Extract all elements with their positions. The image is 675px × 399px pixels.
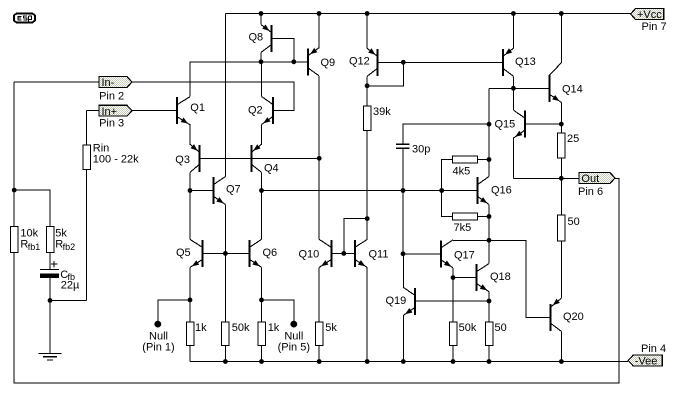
- resistor 1k x190: [186, 322, 194, 345]
- node Q19 base dot: [487, 299, 492, 304]
- wire In- line to Q2 base: [14, 82, 294, 111]
- wire Q5 Q6 base link: [204, 252, 249, 254]
- label Q1: [190, 102, 205, 114]
- esp logo: [14, 14, 35, 23]
- wire 4k5 right lead: [478, 159, 489, 161]
- node Q10 Q11 base dot: [341, 251, 346, 256]
- wire Q12 collector drop: [366, 76, 368, 86]
- wire Q14 emitter to 25R: [560, 102, 562, 133]
- wire 50 right top lead: [488, 301, 490, 322]
- wire 50 bottom to Q20 emitter: [560, 241, 562, 298]
- label 50 x489: [495, 322, 507, 334]
- wire Q11 diode tie: [344, 219, 367, 254]
- svg-text:7k5: 7k5: [454, 222, 472, 234]
- wire 30p bottom lead: [402, 148, 404, 190]
- svg-text:Q6: Q6: [263, 247, 278, 259]
- node Q5 emitter dot: [188, 298, 193, 303]
- wire null pin1 lead: [158, 300, 190, 322]
- label 50k x225.4: [232, 322, 250, 334]
- label Null (Pin 1): [142, 331, 174, 354]
- label Pin 4: [641, 343, 666, 355]
- svg-text:Q11: Q11: [369, 248, 389, 260]
- node Cfb ground junction: [48, 298, 53, 303]
- resistor 25: [558, 133, 566, 158]
- node 30p bottom dot: [401, 188, 406, 193]
- wire Q3 Q4 base line: [200, 157, 320, 159]
- wire 4k5 left to 7k5 left: [442, 160, 453, 217]
- wire Q12 emitter riser: [366, 14, 368, 49]
- wire Q1 collector riser: [190, 62, 308, 97]
- svg-text:Q7: Q7: [226, 183, 241, 195]
- label Q2: [248, 104, 263, 116]
- node y62 Q8 collector dot: [259, 59, 264, 64]
- capacitor Cfb 22u: [40, 261, 59, 278]
- label Q13: [515, 56, 536, 68]
- wire Q18 collector riser: [488, 240, 490, 263]
- label Q10: [299, 248, 320, 260]
- wire x489 to Q17 collector node: [488, 217, 490, 241]
- svg-text:Q5: Q5: [176, 247, 191, 259]
- transistor Q16: [477, 177, 489, 205]
- node rail Q12 dot: [365, 11, 370, 16]
- node 4k5 right dot: [487, 157, 492, 162]
- wire x489 riser: [488, 88, 490, 159]
- wire +Vcc top rail: [225, 13, 630, 15]
- resistor 7k5: [453, 213, 478, 220]
- label 100 - 22k: [93, 154, 139, 166]
- wire Q17 base line: [403, 253, 440, 255]
- svg-text:4k5: 4k5: [453, 166, 471, 178]
- svg-text:+Vcc: +Vcc: [637, 9, 662, 21]
- wire 1k bottom lead x190: [189, 346, 191, 362]
- wire 30p top line: [403, 124, 489, 143]
- wire output line: [513, 177, 579, 179]
- transistor Q15: [513, 110, 526, 138]
- wire 50 top lead: [560, 178, 562, 215]
- wire Q7 collector riser: [224, 14, 226, 177]
- label Q18: [490, 271, 511, 283]
- wire Q20 collector drop: [560, 331, 562, 361]
- label Pin 3: [99, 118, 124, 130]
- wire Q8 collector drop: [260, 53, 262, 62]
- svg-text:fb1: fb1: [28, 242, 41, 252]
- svg-text:10k: 10k: [20, 227, 38, 239]
- transistor Q20: [550, 298, 562, 331]
- wire null pin5 lead: [262, 300, 294, 322]
- resistor 50k x453: [449, 322, 457, 345]
- label Null (Pin 5): [278, 331, 310, 354]
- svg-text:1k: 1k: [195, 322, 207, 334]
- wire Q14 base line: [489, 87, 548, 89]
- wire Q13 collector drop: [512, 76, 514, 88]
- wire Q6 emitter drop: [261, 267, 263, 322]
- svg-text:Pin 4: Pin 4: [641, 343, 666, 355]
- svg-text:Pin 3: Pin 3: [99, 118, 124, 130]
- node rail Q8 dot: [259, 11, 264, 16]
- svg-text:Q15: Q15: [495, 118, 516, 130]
- svg-text:Pin 6: Pin 6: [578, 186, 603, 198]
- transistor Q17: [440, 240, 453, 268]
- resistor Rfb2 5k: [46, 227, 54, 253]
- wire Q8 base link: [273, 39, 294, 62]
- wire Q14 collector riser: [560, 14, 562, 63]
- wire Q15 base stub: [526, 123, 561, 125]
- tag In- Pin 2: [99, 77, 132, 90]
- wire Q5 emitter drop: [189, 267, 191, 322]
- resistor 50k x225.4: [222, 322, 230, 345]
- capacitor 30p: [396, 144, 410, 148]
- svg-text:Q13: Q13: [515, 56, 536, 68]
- svg-text:(Pin 5): (Pin 5): [278, 341, 310, 353]
- label Q14: [562, 83, 583, 95]
- wire Q19 collector riser: [402, 254, 404, 288]
- label Pin 6: [578, 186, 603, 198]
- svg-text:50k: 50k: [459, 322, 477, 334]
- wire -Vee bottom rail: [190, 361, 628, 363]
- svg-text:Q2: Q2: [248, 104, 263, 116]
- wire Q10 collector drop: [318, 158, 320, 239]
- label 39k: [373, 106, 391, 118]
- label 1k x261.5: [268, 322, 280, 334]
- label 50 output: [568, 216, 580, 228]
- wire 50k bottom lead x453: [452, 346, 454, 362]
- transistor Q3: [190, 144, 201, 172]
- node y62 Q8 base dot: [291, 59, 296, 64]
- node Q13 collector dot: [511, 86, 516, 91]
- wire Q19 base line: [416, 300, 489, 302]
- wire x403 riser: [402, 191, 404, 254]
- transistor Q2: [262, 97, 275, 125]
- transistor Q7: [213, 177, 226, 205]
- svg-text:Q18: Q18: [490, 271, 511, 283]
- label Q11: [369, 248, 389, 260]
- svg-text:Q1: Q1: [190, 102, 205, 114]
- tag In+ Pin 3: [99, 105, 132, 118]
- label 50k x453: [459, 322, 477, 334]
- wire Q10 Q11 base link: [332, 252, 353, 254]
- svg-text:Q9: Q9: [321, 57, 336, 69]
- node Q16 base dot: [439, 188, 444, 193]
- svg-text:30p: 30p: [412, 144, 430, 156]
- svg-text:Q4: Q4: [264, 162, 279, 174]
- wire Q18 emitter drop: [488, 292, 490, 301]
- label Q5: [176, 247, 191, 259]
- node null pin5 terminal: [290, 321, 297, 328]
- wire Q7 base stub: [190, 190, 213, 192]
- transistor Q14: [548, 63, 561, 103]
- wire 50 bottom lead x489: [488, 346, 490, 362]
- label Q15: [495, 118, 516, 130]
- resistor 39k: [363, 106, 371, 131]
- svg-text:100 - 22k: 100 - 22k: [93, 154, 139, 166]
- transistor Q9: [307, 48, 319, 76]
- wire Q13 emitter riser: [512, 14, 514, 49]
- transistor Q8: [261, 25, 273, 53]
- resistor 50 output: [558, 215, 566, 241]
- svg-text:50: 50: [568, 216, 580, 228]
- label 10k: [20, 227, 38, 239]
- svg-text:5k: 5k: [55, 227, 67, 239]
- ground: [39, 354, 62, 360]
- label Pin 7: [642, 21, 667, 33]
- node Q12 collector dot: [365, 83, 370, 88]
- svg-text:Out: Out: [581, 173, 599, 185]
- wire 5k bottom lead x319.2: [318, 346, 320, 362]
- wire 50k bottom lead x225.4: [224, 346, 226, 362]
- transistor Q4: [250, 144, 261, 172]
- resistor Rin: [83, 145, 91, 170]
- node In- junction dot: [12, 188, 17, 193]
- resistor 1k x261.5: [258, 322, 266, 345]
- label Cfb: [60, 269, 75, 282]
- label Pin 2: [99, 91, 124, 103]
- wire In+ line to Q1 base: [87, 110, 176, 112]
- svg-text:Q8: Q8: [249, 31, 264, 43]
- svg-text:39k: 39k: [373, 106, 391, 118]
- node rail dot x453: [451, 359, 456, 364]
- svg-text:Pin 7: Pin 7: [642, 21, 667, 33]
- transistor Q19: [403, 287, 416, 315]
- wire Q4 collector drop: [261, 172, 263, 239]
- label Q20: [563, 311, 584, 323]
- label Q7: [226, 183, 241, 195]
- transistor Q10: [319, 239, 332, 267]
- svg-text:25: 25: [567, 133, 579, 145]
- svg-text:Q14: Q14: [562, 83, 583, 95]
- wire Q12 diode tie: [367, 62, 403, 86]
- node Q7 base dot: [188, 188, 193, 193]
- label Q17: [454, 249, 475, 261]
- wire Q9 emitter riser: [318, 14, 320, 48]
- wire Q1 emitter to Q3: [189, 125, 191, 145]
- node Q17 base dot: [401, 251, 406, 256]
- svg-text:Q16: Q16: [491, 184, 512, 196]
- label 5k: [55, 227, 67, 239]
- resistor 4k5: [453, 156, 478, 163]
- node rail Q11 dot: [365, 359, 370, 364]
- wire 39k bottom to Q11: [366, 131, 368, 219]
- node 30p top dot: [487, 122, 492, 127]
- node rail Q9 dot: [317, 11, 322, 16]
- node rail Q13 dot: [511, 11, 516, 16]
- label Q3: [175, 154, 190, 166]
- transistor Q18: [476, 264, 489, 292]
- wire Q9 collector drop: [318, 76, 320, 159]
- wire Q3 collector drop: [189, 172, 191, 239]
- transistor Q13: [502, 48, 514, 76]
- label Q12: [349, 55, 370, 67]
- node Q18 base dot: [451, 275, 456, 280]
- node rail Q19 dot: [401, 359, 406, 364]
- wire Q2 emitter to Q4: [261, 125, 263, 145]
- node null pin1 terminal: [154, 321, 161, 328]
- label 7k5: [454, 222, 472, 234]
- label Q9: [321, 57, 336, 69]
- resistor Rfb1 10k: [10, 227, 18, 253]
- wire Rfb2 bottom to Cfb: [49, 252, 51, 269]
- wire Q15 collector riser: [512, 88, 514, 110]
- wire Q18 base stub: [453, 277, 476, 279]
- wire Q7 emitter drop: [224, 205, 226, 254]
- svg-text:Q20: Q20: [563, 311, 584, 323]
- node output dot: [559, 176, 564, 181]
- node Q7 emitter dot: [223, 251, 228, 256]
- label Q6: [263, 247, 278, 259]
- transistor Q6: [249, 239, 262, 267]
- svg-text:50k: 50k: [232, 322, 250, 334]
- label 22u: [61, 280, 80, 292]
- node Q11 collector dot: [365, 216, 370, 221]
- label Rfb1: [20, 239, 40, 252]
- wire Q17 emitter drop: [452, 268, 454, 322]
- label 30p: [412, 144, 430, 156]
- wire 50k left top lead: [224, 253, 226, 322]
- node rail Q14 dot: [559, 11, 564, 16]
- svg-text:fb2: fb2: [63, 242, 76, 252]
- wire Q11 emitter drop: [366, 267, 368, 361]
- tag +Vcc Pin 7: [631, 9, 664, 22]
- transistor Q11: [354, 239, 367, 267]
- wire Q10 emitter drop: [318, 267, 320, 322]
- svg-text:Q19: Q19: [386, 295, 407, 307]
- wire Rin bottom lead: [86, 170, 88, 301]
- wire y190 line to Q16 base: [262, 190, 477, 192]
- wire Rfb1 top lead: [13, 190, 15, 227]
- label 5k x319.2: [325, 322, 337, 334]
- svg-text:Q12: Q12: [349, 55, 370, 67]
- wire output feedback loop: [14, 178, 619, 383]
- label 4k5: [453, 166, 471, 178]
- transistor Q1: [176, 97, 190, 125]
- node rail dot x261.5: [259, 359, 264, 364]
- svg-text:22µ: 22µ: [61, 280, 80, 292]
- label 1k x190: [195, 322, 207, 334]
- svg-text:50: 50: [495, 322, 507, 334]
- wire Q17 collector link: [453, 239, 489, 241]
- wire Q19 emitter drop: [402, 315, 404, 361]
- label Q4: [264, 162, 279, 174]
- wire 1k bottom lead x261.5: [261, 346, 263, 362]
- wire In- node to Rfb2: [14, 190, 50, 227]
- wire 7k5 right lead: [478, 216, 489, 218]
- svg-text:-Vee: -Vee: [635, 356, 658, 368]
- tag Out Pin 6: [579, 173, 615, 186]
- node Q15 base dot: [559, 122, 564, 127]
- wire Q8 emitter stub: [260, 14, 262, 25]
- wire Q16 emitter drop: [488, 205, 490, 217]
- svg-text:Q3: Q3: [175, 154, 190, 166]
- label Q16: [491, 184, 512, 196]
- wire 25R bottom to out: [560, 158, 562, 178]
- label 25: [567, 133, 579, 145]
- node 7k5 right dot: [487, 214, 492, 219]
- wire Q16 collector riser: [488, 160, 490, 177]
- wire Cfb bottom node: [49, 278, 51, 354]
- svg-text:Pin 2: Pin 2: [99, 91, 124, 103]
- wire Rin return to ground node: [50, 299, 87, 301]
- wire In- drop to feedback node: [13, 82, 15, 190]
- svg-text:5k: 5k: [325, 322, 337, 334]
- svg-text:In-: In-: [102, 77, 115, 89]
- label Rfb2: [55, 239, 75, 252]
- node rail dot x489: [487, 359, 492, 364]
- label Rin: [93, 143, 110, 155]
- svg-text:In+: In+: [102, 106, 118, 118]
- wire 39k top lead: [366, 86, 368, 106]
- transistor Q12: [367, 48, 378, 76]
- svg-text:1k: 1k: [268, 322, 280, 334]
- node rail Q20 dot: [559, 359, 564, 364]
- node rail dot x225.4: [223, 359, 228, 364]
- wire Q2 collector riser: [261, 62, 263, 97]
- node Q6 emitter dot: [259, 298, 264, 303]
- svg-text:(Pin 1): (Pin 1): [142, 341, 174, 353]
- transistor Q5: [190, 239, 204, 267]
- wire Q15 emitter drop: [512, 138, 514, 178]
- resistor 50 x489: [485, 322, 493, 345]
- tag -Vee Pin 4: [628, 355, 662, 368]
- wire Rin top lead: [86, 111, 88, 145]
- label Q19: [386, 295, 407, 307]
- node y190 left dot: [259, 188, 264, 193]
- wire Q20 base feed: [489, 240, 550, 317]
- node rail dot x319.2: [317, 359, 322, 364]
- svg-text:Q10: Q10: [299, 248, 320, 260]
- resistor 5k x319.2: [315, 322, 323, 345]
- label Q8: [249, 31, 264, 43]
- node Q12 base dot: [401, 60, 406, 65]
- node y158 dot: [317, 156, 322, 161]
- node Q17 collector dot: [487, 238, 492, 243]
- wire Q12 Q13 base link: [379, 61, 502, 63]
- wire Q11 collector riser: [366, 219, 368, 240]
- svg-text:Q17: Q17: [454, 249, 475, 261]
